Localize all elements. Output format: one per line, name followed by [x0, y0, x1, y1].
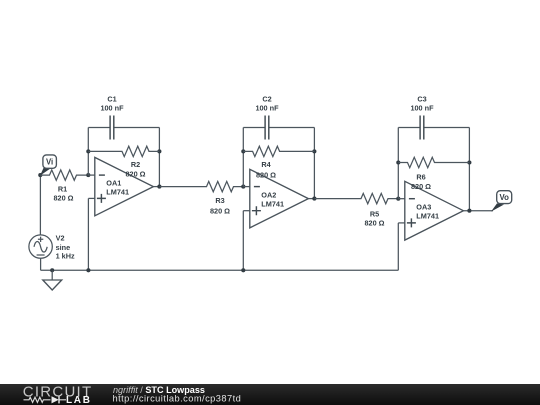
svg-text:C3: C3: [417, 94, 426, 103]
resistor R6: [398, 157, 469, 167]
wire C3 top rail: [398, 127, 469, 129]
wire OA1 output: [153, 186, 159, 188]
capacitor C1: [110, 116, 114, 140]
wire stage2 feedback right rail: [313, 128, 315, 199]
wire OA3 inverting input: [398, 198, 405, 200]
junction OA2 inverting input node: [241, 185, 245, 189]
wire OA2 inverting input: [243, 186, 250, 188]
junction stage2 ground: [241, 268, 245, 272]
resistor R2: [88, 146, 159, 156]
svg-text:R3: R3: [215, 196, 224, 205]
op-amp OA2: [250, 169, 309, 228]
svg-text:1 kHz: 1 kHz: [56, 252, 75, 261]
wire stage3 feedback right rail: [468, 128, 470, 211]
junction OA3 inverting input node: [396, 197, 400, 201]
svg-text:R1: R1: [58, 185, 67, 194]
wire OA2 non-inverting input: [243, 210, 250, 212]
svg-text:820 Ω: 820 Ω: [125, 170, 145, 179]
wire stage2 ground drop: [242, 211, 244, 271]
svg-text:V2: V2: [56, 234, 65, 243]
svg-text:OA1: OA1: [106, 178, 121, 187]
wire OA3 non-inverting input: [398, 222, 405, 224]
wire stage2 feedback left rail: [242, 128, 244, 187]
svg-text:R4: R4: [261, 160, 271, 169]
wire V2 bottom to ground rail: [40, 258, 42, 270]
wire stage3 ground riser: [397, 223, 399, 270]
junction stage1 ground: [86, 268, 90, 272]
wire OA1 non-inverting input: [88, 197, 94, 199]
junction OA2 output node: [312, 197, 316, 201]
wire OA2 output: [308, 198, 314, 200]
junction R6 left: [396, 160, 400, 164]
node Vi: [40, 168, 50, 176]
svg-text:http://circuitlab.com/cp387td: http://circuitlab.com/cp387td: [113, 394, 242, 404]
junction R2 right: [157, 149, 161, 153]
svg-text:100 nF: 100 nF: [410, 104, 434, 113]
svg-text:C1: C1: [107, 94, 116, 103]
svg-text:Vo: Vo: [500, 193, 510, 202]
svg-text:OA3: OA3: [416, 202, 431, 211]
wire C2 top rail: [243, 127, 314, 129]
node Vo: [491, 203, 504, 211]
junction R6 right: [467, 160, 471, 164]
svg-text:100 nF: 100 nF: [100, 104, 124, 113]
resistor R3: [159, 181, 243, 191]
svg-text:LM741: LM741: [416, 211, 439, 220]
resistor R5: [314, 193, 398, 203]
svg-text:100 nF: 100 nF: [255, 104, 279, 113]
svg-text:820 Ω: 820 Ω: [364, 218, 384, 227]
svg-text:C2: C2: [262, 94, 271, 103]
svg-text:LM741: LM741: [106, 187, 129, 196]
ground: [51, 270, 53, 280]
svg-text:LM741: LM741: [261, 199, 284, 208]
resistor R4: [243, 146, 314, 156]
junction OA3 output node: [467, 209, 471, 213]
junction Vi node: [38, 173, 42, 177]
svg-text:LAB: LAB: [66, 395, 92, 405]
wire bottom ground rail: [41, 269, 399, 271]
wire stage1 feedback right rail: [158, 128, 160, 187]
svg-text:Vi: Vi: [46, 157, 53, 166]
wire stage1 ground drop: [87, 198, 89, 270]
svg-text:R2: R2: [131, 160, 140, 169]
svg-text:R5: R5: [370, 209, 379, 218]
svg-text:OA2: OA2: [261, 190, 276, 199]
op-amp OA1: [95, 157, 154, 215]
CircuitLab logo: [23, 384, 93, 405]
wire stage1 feedback left rail: [87, 128, 89, 176]
junction R2 left: [86, 149, 90, 153]
junction OA1 output node: [157, 185, 161, 189]
voltage source V2: [29, 235, 52, 258]
junction R4 right: [312, 149, 316, 153]
svg-text:820 Ω: 820 Ω: [53, 194, 73, 203]
op-amp OA3: [405, 181, 464, 240]
wire OA3 output: [463, 210, 493, 212]
wire OA1 inverting input: [88, 174, 95, 176]
junction R4 left: [241, 149, 245, 153]
svg-text:820 Ω: 820 Ω: [210, 206, 230, 215]
svg-text:R6: R6: [416, 173, 425, 182]
svg-text:820 Ω: 820 Ω: [256, 170, 276, 179]
junction ground tap: [50, 268, 54, 272]
wire stage3 feedback left rail: [397, 128, 399, 199]
junction OA1 inverting input node: [86, 173, 90, 177]
capacitor C3: [420, 116, 424, 140]
svg-text:820 Ω: 820 Ω: [411, 182, 431, 191]
capacitor C2: [265, 116, 269, 140]
resistor R1: [40, 170, 88, 180]
wire C1 top rail: [88, 127, 159, 129]
wire Vi node to V2 top: [39, 175, 41, 235]
